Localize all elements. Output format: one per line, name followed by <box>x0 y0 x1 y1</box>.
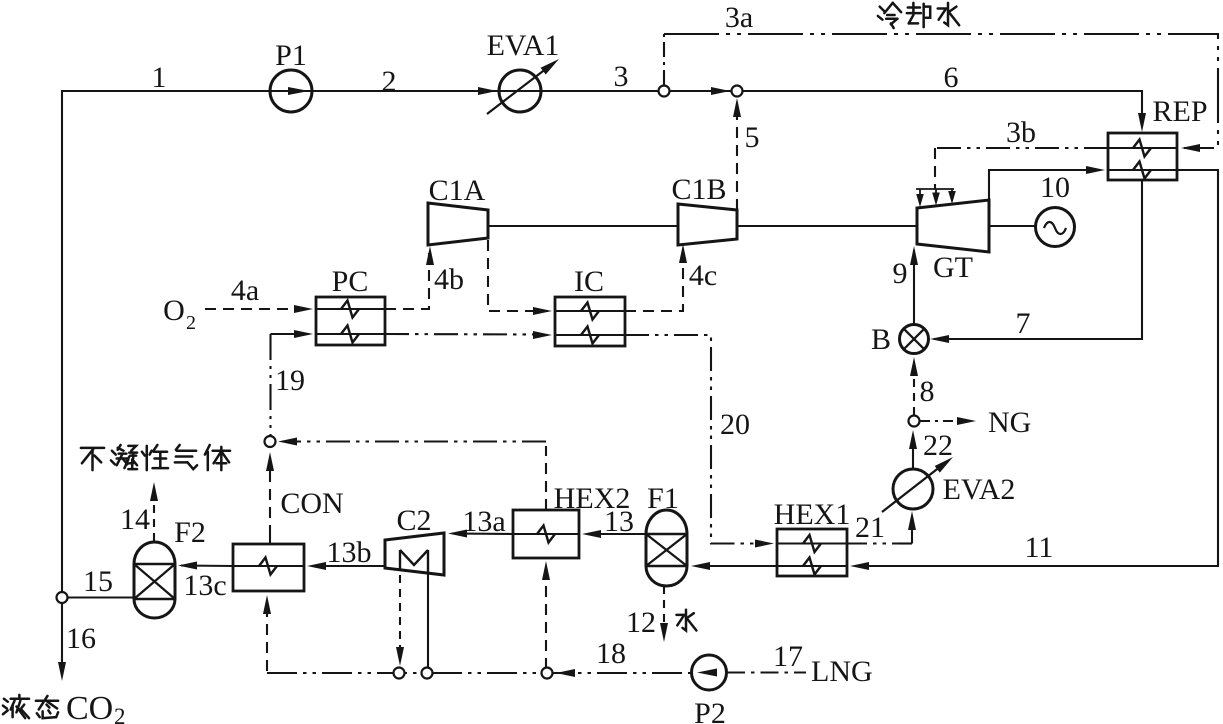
svg-text:P1: P1 <box>275 39 307 72</box>
heat exchanger IC <box>555 297 625 346</box>
svg-text:20: 20 <box>720 408 750 441</box>
svg-text:7: 7 <box>1016 307 1031 340</box>
svg-text:HEX1: HEX1 <box>774 498 851 531</box>
condenser CON <box>233 544 304 591</box>
label water (shui) at stream 12 <box>676 610 696 631</box>
wire C2 left drain dashed with arrow <box>399 575 401 655</box>
wire stream 19 vertical chain <box>269 334 271 436</box>
svg-text:6: 6 <box>944 61 959 94</box>
wire stream 13 F1 to HEX2 <box>589 533 646 535</box>
node NG junction <box>909 416 920 427</box>
svg-text:3b: 3b <box>1006 116 1036 149</box>
wire stream 4c dashed IC to C1B <box>625 252 683 311</box>
GT inlet manifold with three arrows <box>916 188 954 190</box>
svg-text:PC: PC <box>332 265 369 298</box>
svg-text:4a: 4a <box>231 274 259 307</box>
svg-text:2: 2 <box>382 65 397 98</box>
arrow stream 16 down <box>58 662 66 681</box>
arrow cooling water into REP right <box>1181 144 1200 152</box>
svg-text:12: 12 <box>626 606 656 639</box>
svg-text:17: 17 <box>773 640 803 673</box>
svg-text:10: 10 <box>1040 171 1070 204</box>
wire CON top to node 19 <box>269 458 271 536</box>
label cooling water (leng que shui) <box>878 3 901 28</box>
node 3a branch junction <box>659 86 670 97</box>
wire CON bottom to LNG line <box>266 606 268 673</box>
label liquid CO2 (ye tai CO2) <box>3 695 29 718</box>
wire stream 4b dashed PC to C1A <box>385 253 429 309</box>
arrow on stream 2 into EVA1 <box>478 87 497 95</box>
svg-text:13c: 13c <box>183 569 226 602</box>
svg-text:NG: NG <box>988 406 1031 439</box>
node 15 junction <box>57 592 68 603</box>
svg-text:11: 11 <box>1025 531 1054 564</box>
wire stream 15 node to F2 <box>68 596 134 598</box>
svg-text:P2: P2 <box>694 697 726 724</box>
wire stream 21 HEX1 to EVA2 <box>847 542 898 544</box>
arrow into node 5 junction <box>711 87 730 95</box>
wire GT shaft to generator <box>989 225 1035 227</box>
wire stream 12 dashed water outlet <box>663 586 665 632</box>
svg-text:LNG: LNG <box>811 655 873 688</box>
svg-text:REP: REP <box>1152 95 1207 128</box>
wire stream 13a HEX2 to C2 <box>452 532 513 535</box>
svg-text:1: 1 <box>152 61 167 94</box>
pump P1 <box>270 70 312 112</box>
svg-text:GT: GT <box>933 251 973 284</box>
svg-text:B: B <box>871 323 891 356</box>
wire stream 4a dashed O2 to PC <box>205 308 310 310</box>
svg-text:F2: F2 <box>174 516 206 549</box>
node 5 junction <box>732 86 743 97</box>
separator F2 <box>134 542 175 618</box>
wire C2 right drain <box>427 573 429 667</box>
wire stream 3a cooling water chain line <box>663 34 665 85</box>
wire stream 5 dashed <box>736 104 738 210</box>
wire stream 20 chain IC to HEX1 <box>625 335 768 544</box>
wire stream 22 EVA2 to node <box>912 436 914 468</box>
arrow stream 6 into REP top <box>1138 113 1146 132</box>
compressor C2 <box>385 533 444 575</box>
svg-text:EVA2: EVA2 <box>943 473 1016 506</box>
svg-text:13b: 13b <box>327 536 372 569</box>
arrow stream 18 <box>556 669 575 677</box>
separator F1 <box>646 510 687 586</box>
wire stream 8 dashed node to B <box>913 366 915 415</box>
burner valve B <box>900 325 929 354</box>
wire dashed C1A outlet to IC <box>488 240 548 311</box>
wire NG chain branch <box>920 420 964 422</box>
node HEX2 drain junction <box>542 668 553 679</box>
wire stream 19 into PC lower left <box>271 333 310 335</box>
svg-text:4b: 4b <box>434 263 464 296</box>
svg-text:5: 5 <box>745 121 760 154</box>
node C2 right drain junction <box>422 668 433 679</box>
svg-text:21: 21 <box>855 511 885 544</box>
svg-text:CON: CON <box>280 487 343 520</box>
wire chain HEX2 top to node 19 <box>545 446 547 510</box>
svg-text:13a: 13a <box>462 505 505 538</box>
pump P2 <box>692 655 727 690</box>
svg-text:F1: F1 <box>647 482 679 515</box>
svg-text:16: 16 <box>66 622 96 655</box>
node C2 left drain junction <box>394 668 405 679</box>
wire stream 3b chain from REP to GT inlet manifold <box>935 147 1108 149</box>
wire C1B to GT <box>737 225 917 227</box>
svg-text:EVA1: EVA1 <box>487 29 560 62</box>
svg-text:2: 2 <box>114 704 126 724</box>
svg-text:19: 19 <box>275 364 305 397</box>
node 19/CON junction <box>265 436 276 447</box>
wire stream 13b C2 to CON <box>313 565 385 567</box>
svg-text:18: 18 <box>596 637 626 670</box>
turbine GT <box>917 200 989 252</box>
wire chain PC to IC lower <box>385 333 545 336</box>
wire HEX2 bottom to LNG line <box>545 568 547 667</box>
heat exchanger PC <box>316 297 385 345</box>
svg-text:O: O <box>163 294 185 327</box>
svg-text:15: 15 <box>83 565 113 598</box>
svg-text:8: 8 <box>920 375 935 408</box>
svg-text:CO: CO <box>66 690 113 724</box>
svg-text:2: 2 <box>186 312 196 334</box>
label non-condensable gas (bu ning xing qi ti) <box>81 448 104 470</box>
svg-text:IC: IC <box>574 265 604 298</box>
heat exchanger REP <box>1108 133 1177 180</box>
evaporator EVA1 <box>499 70 541 112</box>
svg-text:14: 14 <box>120 503 150 536</box>
shaft wire C1A to C1B <box>488 225 678 227</box>
heat exchanger HEX2 <box>513 510 579 558</box>
svg-text:4c: 4c <box>689 259 717 292</box>
evaporator EVA2 <box>893 469 933 509</box>
svg-text:9: 9 <box>893 257 908 290</box>
svg-text:HEX2: HEX2 <box>554 482 631 515</box>
wire GT exhaust to REP left <box>989 170 1096 200</box>
svg-text:3: 3 <box>614 60 629 93</box>
heat exchanger HEX1 <box>777 529 847 576</box>
wire HEX1 to F1 <box>697 565 777 567</box>
wire stream 13c CON to F2 <box>181 564 233 567</box>
svg-text:C1A: C1A <box>429 174 486 207</box>
svg-text:3a: 3a <box>725 1 753 34</box>
compressor C1A <box>428 203 488 245</box>
wire stream 1-2-3-6 main top line <box>62 91 1142 592</box>
wire stream 7 REP bottom to burner B <box>934 180 1142 339</box>
wire left column below node 15 to liquid CO2 outlet <box>61 603 63 668</box>
wire stream 18 LNG bottom line <box>267 672 691 674</box>
wire stream 9 B to GT <box>913 250 915 325</box>
svg-text:C2: C2 <box>396 504 431 537</box>
wire stream 11 REP right to HEX1 <box>856 170 1218 566</box>
compressor C1B <box>678 204 737 245</box>
wire stream 17 chain LNG inlet <box>727 671 806 673</box>
wire stream 14 dashed non-condensable outlet <box>153 494 155 541</box>
svg-text:22: 22 <box>923 429 953 462</box>
generator 10 <box>1036 208 1075 247</box>
svg-text:C1B: C1B <box>671 173 726 206</box>
